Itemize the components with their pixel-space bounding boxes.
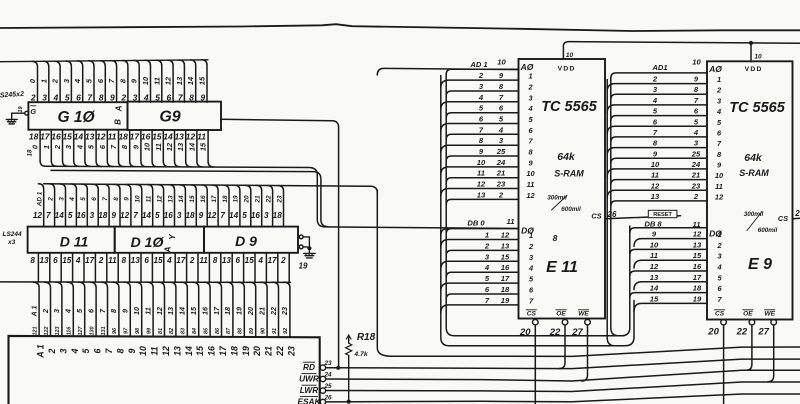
pin RD with circle, pin 23 (303, 360, 332, 372)
wire address rail left of E9 (607, 78, 624, 346)
svg-text:123: 123 (55, 327, 61, 336)
svg-text:G: G (30, 107, 36, 116)
svg-text:11: 11 (143, 307, 152, 314)
svg-text:4: 4 (75, 145, 84, 150)
wire E9 WE pin 27 to LWR (768, 325, 774, 382)
svg-text:12: 12 (33, 211, 43, 220)
pin G enable label G10 (30, 106, 36, 116)
svg-text:97: 97 (124, 327, 130, 334)
svg-text:300mil: 300mil (744, 211, 764, 218)
svg-text:D 9: D 9 (235, 233, 257, 249)
svg-text:AD1: AD1 (651, 63, 667, 72)
svg-text:D 1Ø: D 1Ø (131, 234, 165, 250)
svg-text:11: 11 (199, 256, 208, 265)
svg-text:25: 25 (496, 147, 506, 156)
svg-text:20: 20 (519, 327, 531, 338)
svg-text:14: 14 (55, 211, 65, 220)
svg-text:116: 116 (67, 326, 73, 336)
signal and pin labels above D11/D10/D9 (33, 191, 283, 220)
svg-text:24: 24 (691, 160, 701, 169)
svg-text:S-RAM: S-RAM (554, 169, 584, 179)
data row labels E11 (467, 217, 514, 305)
wire from G9 output down to RD line (221, 119, 340, 370)
svg-text:12: 12 (650, 262, 659, 271)
svg-text:13: 13 (693, 240, 702, 249)
svg-text:8: 8 (99, 92, 104, 102)
svg-text:6: 6 (93, 348, 103, 353)
svg-text:5: 5 (68, 211, 73, 220)
svg-text:13: 13 (131, 256, 141, 265)
address row labels E9 (651, 58, 702, 201)
svg-text:20: 20 (246, 307, 255, 316)
svg-text:12: 12 (693, 230, 702, 239)
svg-text:4: 4 (528, 264, 533, 273)
svg-text:2: 2 (189, 256, 195, 265)
svg-text:18: 18 (229, 346, 239, 356)
svg-text:1: 1 (39, 79, 48, 83)
wire AD1 header feed to E11 (377, 68, 518, 75)
wire address bus above D11/D10/D9 (38, 184, 377, 227)
svg-text:2: 2 (51, 78, 60, 84)
svg-text:13: 13 (650, 273, 659, 282)
svg-text:6: 6 (236, 256, 241, 265)
svg-text:10: 10 (132, 307, 141, 315)
svg-text:18: 18 (222, 195, 229, 203)
svg-text:10: 10 (477, 158, 486, 167)
pin number labels below D11/D10/D9 (30, 256, 286, 265)
svg-text:8: 8 (122, 256, 127, 265)
svg-text:V D D: V D D (558, 66, 575, 73)
svg-text:3: 3 (177, 211, 182, 220)
buffer IC G9 (LS245) (128, 102, 222, 130)
svg-text:12: 12 (165, 142, 174, 151)
svg-text:13: 13 (39, 256, 49, 265)
label LS244 x3 (3, 231, 23, 246)
svg-text:19: 19 (235, 307, 244, 315)
svg-text:19: 19 (693, 294, 702, 303)
svg-text:10: 10 (138, 346, 148, 356)
svg-text:6: 6 (91, 197, 98, 201)
svg-text:2: 2 (30, 92, 36, 102)
svg-text:CS: CS (527, 311, 537, 318)
svg-text:15: 15 (693, 251, 702, 260)
pin LWR with circle, pin 25 (300, 383, 332, 395)
svg-text:14: 14 (178, 195, 185, 203)
svg-text:11: 11 (108, 256, 117, 265)
svg-text:4: 4 (166, 256, 172, 265)
CPU box (address/control source) (9, 336, 320, 404)
svg-text:17: 17 (693, 273, 702, 282)
svg-text:64k: 64k (744, 152, 763, 164)
svg-text:16: 16 (141, 132, 151, 142)
svg-text:G 1Ø: G 1Ø (57, 109, 95, 126)
svg-text:10: 10 (692, 58, 701, 67)
svg-text:25: 25 (691, 149, 701, 158)
svg-text:16: 16 (251, 211, 261, 220)
wire E9 CS pin 20 down (723, 325, 725, 404)
svg-text:2: 2 (98, 256, 104, 265)
svg-text:99: 99 (146, 328, 152, 334)
svg-text:WE: WE (764, 311, 775, 318)
svg-text:11: 11 (154, 143, 163, 151)
signal labels A1-A23 above CPU box (29, 306, 289, 336)
svg-text:11: 11 (197, 132, 206, 142)
svg-text:7: 7 (133, 211, 138, 220)
svg-text:13: 13 (222, 256, 232, 265)
svg-text:1: 1 (42, 145, 51, 149)
svg-text:1: 1 (485, 231, 489, 240)
svg-text:4.7k: 4.7k (353, 351, 368, 358)
svg-text:LS244: LS244 (3, 231, 23, 238)
svg-text:15: 15 (198, 76, 207, 85)
svg-text:25: 25 (323, 383, 332, 390)
svg-text:15: 15 (245, 256, 255, 265)
svg-text:17: 17 (211, 195, 218, 203)
svg-text:18: 18 (118, 132, 128, 142)
pin 10 label VDD E11 (566, 52, 574, 59)
svg-text:4: 4 (73, 79, 82, 84)
svg-text:18: 18 (27, 149, 34, 156)
svg-text:10: 10 (715, 171, 724, 180)
svg-text:11: 11 (715, 182, 723, 191)
svg-text:5: 5 (80, 197, 87, 201)
svg-text:22: 22 (275, 346, 285, 357)
svg-text:5: 5 (81, 348, 91, 353)
svg-text:12: 12 (161, 346, 171, 356)
svg-text:91: 91 (272, 328, 278, 334)
svg-text:18: 18 (273, 211, 283, 220)
svg-text:2: 2 (484, 241, 490, 250)
svg-text:DB 0: DB 0 (467, 219, 485, 228)
svg-text:11: 11 (108, 132, 117, 142)
pin WE 27 of E9 (757, 310, 776, 338)
svg-text:23: 23 (280, 307, 289, 316)
pin name labels A1-A23 inside CPU box (36, 344, 297, 358)
svg-text:2: 2 (528, 242, 534, 251)
svg-text:4: 4 (69, 197, 76, 202)
pin CS 20 of E9 (707, 310, 726, 338)
svg-text:9: 9 (111, 211, 116, 220)
svg-text:4: 4 (70, 348, 80, 354)
svg-text:4: 4 (716, 107, 721, 116)
svg-text:24: 24 (496, 158, 506, 167)
svg-text:16: 16 (164, 211, 174, 220)
svg-text:22: 22 (269, 307, 278, 316)
svg-text:23: 23 (276, 195, 283, 204)
svg-text:12: 12 (715, 192, 724, 201)
svg-text:21: 21 (255, 195, 262, 204)
svg-text:4: 4 (527, 104, 532, 113)
svg-text:12: 12 (501, 231, 510, 240)
svg-text:8: 8 (30, 256, 35, 265)
svg-text:89: 89 (249, 328, 255, 334)
svg-text:10: 10 (526, 169, 535, 178)
svg-text:4: 4 (652, 96, 658, 105)
svg-text:13: 13 (167, 195, 174, 203)
svg-text:14: 14 (186, 77, 195, 85)
svg-text:92: 92 (283, 328, 289, 334)
svg-text:15: 15 (189, 195, 196, 203)
pin OE 22 of E11 (549, 310, 568, 338)
svg-text:9: 9 (124, 197, 131, 201)
svg-text:6: 6 (144, 256, 149, 265)
svg-text:5: 5 (242, 211, 247, 220)
svg-text:2: 2 (41, 309, 50, 314)
svg-text:600mil: 600mil (758, 227, 778, 234)
svg-text:121: 121 (32, 327, 38, 336)
svg-text:1: 1 (528, 72, 532, 81)
svg-text:18: 18 (98, 211, 108, 220)
svg-text:16: 16 (51, 132, 61, 142)
svg-text:2: 2 (478, 71, 484, 80)
svg-text:E 11: E 11 (546, 259, 578, 276)
wire data rows DB8-15 into E9 (630, 228, 707, 311)
svg-text:90: 90 (260, 328, 266, 334)
RESET net label (648, 210, 677, 218)
svg-text:14: 14 (184, 346, 194, 356)
svg-text:27: 27 (757, 327, 769, 338)
resistor R18 4.7k pull-up on ESAK (346, 332, 376, 404)
svg-text:600mil: 600mil (561, 206, 581, 213)
pin 26 label E11 CS (607, 210, 617, 219)
svg-text:AD 1: AD 1 (37, 191, 44, 207)
svg-text:4: 4 (64, 309, 73, 314)
svg-text:8: 8 (213, 256, 218, 265)
wire data bus below G10/G9 to RAM data pins (40, 130, 518, 236)
svg-text:2: 2 (498, 190, 504, 199)
svg-text:15: 15 (650, 294, 659, 303)
svg-text:16: 16 (200, 195, 207, 203)
svg-text:8: 8 (115, 348, 125, 353)
svg-text:21: 21 (257, 307, 266, 316)
svg-text:18: 18 (223, 307, 232, 315)
svg-text:17: 17 (85, 256, 95, 265)
wire address rows AD1-13 into E11 (441, 69, 519, 204)
svg-text:15: 15 (199, 142, 208, 151)
svg-text:10: 10 (141, 76, 150, 85)
svg-text:11: 11 (152, 77, 161, 85)
svg-text:17: 17 (212, 306, 221, 315)
svg-text:13: 13 (176, 142, 185, 151)
svg-text:ESAK: ESAK (297, 397, 321, 404)
svg-text:TC 5565: TC 5565 (541, 99, 598, 115)
svg-text:12: 12 (526, 191, 535, 200)
svg-text:17: 17 (130, 132, 141, 142)
svg-text:D 11: D 11 (60, 234, 89, 250)
svg-text:R18: R18 (357, 332, 376, 343)
pin ESAK with circle, pin 26 (297, 394, 332, 404)
svg-text:RESET: RESET (653, 212, 672, 218)
svg-text:18: 18 (185, 211, 195, 220)
wire top horizontal border line (0, 24, 800, 31)
svg-text:19: 19 (501, 296, 510, 305)
svg-text:16: 16 (207, 346, 217, 356)
svg-text:10: 10 (143, 142, 152, 151)
svg-text:UWR: UWR (299, 374, 319, 384)
label LS245x2 (0, 91, 24, 100)
svg-text:RD: RD (303, 362, 315, 372)
svg-text:64k: 64k (557, 151, 576, 163)
svg-text:13: 13 (166, 307, 175, 315)
svg-text:OE: OE (556, 311, 566, 318)
svg-text:14: 14 (178, 307, 187, 315)
wire from right edge up to AD1 row (vertical riser x377) (377, 190, 800, 356)
wire VDD rail to RAM supplies (563, 41, 800, 62)
svg-text:8: 8 (109, 309, 118, 313)
svg-text:WE: WE (578, 311, 589, 318)
svg-text:11: 11 (477, 169, 485, 178)
svg-text:V D D: V D D (745, 66, 762, 73)
wire ESAK line (326, 394, 800, 402)
svg-text:14: 14 (163, 132, 173, 142)
svg-text:13: 13 (477, 190, 486, 199)
RAM IC E9 TC5565 (707, 61, 793, 319)
svg-text:A: A (115, 105, 124, 112)
svg-text:2: 2 (716, 241, 722, 250)
svg-text:19: 19 (18, 106, 24, 113)
svg-text:3: 3 (58, 348, 68, 353)
svg-text:3: 3 (90, 211, 95, 220)
wire E11 OE pin 22 to RD (559, 325, 565, 369)
svg-text:7: 7 (102, 197, 109, 201)
svg-text:14: 14 (74, 132, 84, 142)
svg-text:CS: CS (778, 214, 788, 223)
svg-text:10: 10 (497, 57, 506, 66)
pin WE 27 of E11 (571, 310, 590, 338)
svg-text:AØ: AØ (520, 62, 534, 72)
svg-text:11: 11 (650, 251, 658, 260)
svg-text:B: B (114, 119, 123, 125)
svg-text:18: 18 (29, 132, 39, 142)
svg-text:LWR: LWR (300, 385, 318, 395)
svg-text:AØ: AØ (708, 64, 722, 74)
svg-text:10: 10 (650, 240, 659, 249)
svg-text:13: 13 (175, 76, 184, 85)
svg-text:2: 2 (652, 75, 658, 84)
data row labels E9 (644, 219, 702, 303)
svg-text:23: 23 (691, 181, 701, 190)
svg-text:3: 3 (264, 211, 269, 220)
svg-text:2: 2 (527, 82, 533, 91)
svg-text:19: 19 (299, 262, 308, 271)
svg-text:CS: CS (715, 311, 725, 318)
svg-text:5: 5 (155, 211, 160, 220)
svg-text:2: 2 (120, 92, 126, 102)
svg-text:122: 122 (44, 327, 50, 336)
svg-text:17: 17 (501, 274, 510, 283)
svg-text:S-RAM: S-RAM (739, 168, 769, 178)
wire RD line (326, 359, 800, 369)
svg-text:82: 82 (169, 328, 175, 334)
pin OE 22 of E9 (736, 310, 755, 338)
svg-text:8: 8 (113, 197, 120, 201)
svg-text:12: 12 (96, 132, 106, 142)
svg-text:12: 12 (186, 132, 196, 142)
svg-text:13: 13 (174, 132, 184, 142)
svg-text:15: 15 (195, 346, 205, 356)
svg-text:2: 2 (794, 209, 800, 218)
svg-text:12: 12 (651, 181, 660, 190)
svg-text:20: 20 (244, 195, 251, 204)
svg-text:23: 23 (286, 346, 296, 357)
svg-text:87: 87 (226, 327, 232, 334)
svg-text:6: 6 (76, 92, 81, 102)
buffer IC G10 (LS245) (28, 102, 127, 130)
wire E11 CS2 to RESET (605, 216, 681, 219)
pin 10 label VDD E9 (754, 54, 762, 61)
svg-text:2: 2 (693, 192, 699, 201)
svg-text:4: 4 (75, 256, 81, 265)
svg-text:10: 10 (754, 54, 762, 61)
svg-text:21: 21 (496, 169, 505, 178)
wire E11 CS pin 20 down (534, 325, 536, 404)
svg-text:16: 16 (76, 211, 86, 220)
svg-text:16: 16 (501, 263, 510, 272)
svg-text:4: 4 (257, 256, 263, 265)
svg-text:13: 13 (172, 346, 182, 356)
svg-text:11: 11 (651, 171, 659, 180)
svg-text:11: 11 (527, 180, 535, 189)
svg-text:20: 20 (252, 346, 262, 357)
ground at D9 enable pins 1/19 (299, 235, 316, 271)
svg-text:9: 9 (110, 92, 115, 102)
pin number labels below G10/G9 (27, 132, 208, 157)
svg-text:12: 12 (477, 180, 486, 189)
wire E11 WE pin 27 to UWR (582, 325, 588, 381)
svg-text:13: 13 (501, 241, 510, 250)
svg-text:7: 7 (46, 211, 51, 220)
svg-text:E 9: E 9 (748, 256, 772, 273)
buffer IC D10 (LS244) (115, 227, 204, 253)
svg-text:130: 130 (89, 327, 95, 336)
svg-text:2: 2 (716, 86, 722, 95)
svg-text:17: 17 (176, 256, 186, 265)
svg-text:8: 8 (553, 233, 558, 243)
svg-text:15: 15 (153, 256, 163, 265)
port labels Y/A in D10 (163, 233, 178, 254)
svg-text:11: 11 (693, 220, 701, 229)
svg-text:131: 131 (101, 327, 107, 336)
svg-text:7: 7 (220, 211, 225, 220)
wire CPU address bus between D buffers and CPU box (0, 253, 291, 336)
svg-text:A 1: A 1 (36, 344, 46, 358)
svg-text:3: 3 (58, 197, 65, 201)
wire UWR line (326, 370, 800, 381)
svg-text:3: 3 (52, 309, 61, 313)
svg-text:18: 18 (501, 285, 510, 294)
wire LWR line (326, 382, 800, 392)
wire data-bus rail left of E11 with U-turn to E9 (441, 74, 634, 346)
svg-text:14: 14 (142, 211, 152, 220)
svg-text:23: 23 (323, 360, 332, 367)
svg-text:11: 11 (150, 346, 160, 355)
buffer IC D11 (LS244) (28, 227, 115, 253)
svg-text:G9: G9 (159, 109, 180, 126)
pin number labels above G10/G9 (28, 76, 207, 102)
svg-text:13: 13 (651, 192, 660, 201)
svg-text:16: 16 (200, 306, 209, 315)
svg-text:98: 98 (135, 328, 141, 334)
RAM IC E11 TC5565 (519, 59, 606, 319)
svg-text:24: 24 (323, 371, 332, 378)
svg-text:11: 11 (146, 195, 153, 202)
svg-text:2: 2 (53, 144, 62, 150)
wire E9 CS2 pin 26 to edge (793, 209, 800, 219)
pin UWR with circle, pin 24 (299, 371, 332, 383)
svg-text:17: 17 (267, 256, 277, 265)
svg-text:1: 1 (529, 231, 533, 240)
svg-text:11: 11 (507, 217, 515, 226)
